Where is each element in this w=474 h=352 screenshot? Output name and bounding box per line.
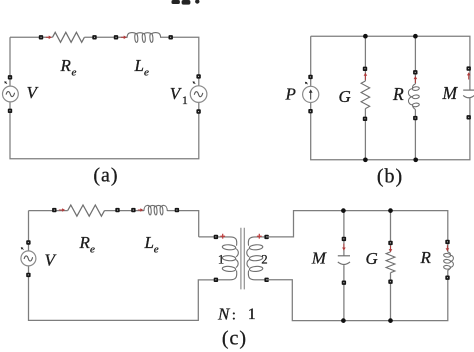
node G top (c) (388, 241, 392, 245)
inductor Le (a) (127, 33, 161, 38)
node (a) V1-bottom (196, 109, 200, 113)
node secondary top (264, 235, 268, 239)
node M top (c) (342, 237, 346, 241)
capacitor M (b) (463, 89, 474, 91)
current arrow G (c) (390, 246, 392, 250)
transformer core (241, 228, 244, 290)
node (c) V-bottom (26, 273, 30, 277)
svg-text:L: L (134, 56, 144, 75)
svg-text:e: e (144, 67, 149, 79)
node R bottom (c) (445, 276, 449, 280)
node M bottom (b) (467, 115, 471, 119)
source V (a) (2, 86, 18, 102)
node (c) top-4 (175, 208, 179, 212)
node (a) V1-top (196, 74, 200, 78)
transformer primary winding (216, 237, 238, 280)
polarity mark P (b) (306, 83, 308, 84)
node (c) top-3 (131, 208, 135, 212)
wire loop (c) right (267, 211, 448, 321)
source V (c) (21, 251, 36, 266)
junction dots (c) bottom (341, 318, 346, 323)
node (a) V-bottom (8, 109, 12, 113)
svg-text:M: M (311, 248, 327, 267)
resistor G (b) (361, 81, 370, 109)
node R top (b) (413, 70, 417, 74)
svg-text:(b): (b) (377, 166, 403, 188)
wire loop (c) left (29, 211, 216, 321)
current arrow (a) mid (121, 36, 125, 38)
node (c) V-top (26, 240, 30, 244)
node primary bottom (214, 278, 218, 282)
svg-text:2: 2 (261, 252, 267, 266)
wire branch G (b) (364, 36, 366, 160)
svg-text:e: e (90, 244, 95, 256)
svg-text:G: G (339, 87, 351, 106)
svg-text::: : (232, 308, 236, 324)
wire branch G (c) (390, 211, 392, 321)
node secondary bottom (264, 278, 268, 282)
inductor R (c) (448, 252, 454, 271)
wire branch R (b) (414, 36, 416, 160)
capacitor M (c) (338, 255, 350, 257)
current arrow M (c) (343, 244, 345, 249)
svg-text:R: R (392, 84, 404, 104)
current arrow (c) mid (138, 209, 141, 211)
svg-text:R: R (60, 56, 72, 75)
junction dots (b) bottom (363, 157, 368, 162)
svg-text:e: e (154, 244, 159, 256)
inductor R (b) (408, 84, 415, 110)
resistor G (c) (386, 252, 395, 273)
svg-text:N: N (217, 305, 231, 324)
node G top (b) (363, 67, 367, 71)
transformer secondary winding (247, 237, 267, 280)
svg-text:R: R (420, 248, 432, 267)
svg-text:R: R (79, 233, 91, 252)
inductor Le (c) (144, 205, 167, 211)
svg-text:M: M (442, 83, 459, 103)
polarity mark V (a) (5, 82, 7, 83)
current arrow R (c) (446, 245, 448, 249)
svg-text:G: G (366, 249, 378, 268)
node R bottom (b) (413, 116, 417, 120)
svg-text:(a): (a) (93, 165, 118, 187)
svg-text:1: 1 (248, 306, 256, 323)
source P (b) (303, 86, 319, 102)
node (a) top-1 (39, 35, 43, 39)
svg-text:(c): (c) (222, 328, 247, 350)
junction dots (c) top (341, 208, 346, 213)
node (a) V-top (8, 75, 12, 79)
title text remnant (cropped) (172, 0, 200, 5)
node (c) top-2 (115, 208, 119, 212)
current arrow R (b) (414, 78, 416, 83)
svg-text:P: P (285, 85, 296, 104)
junction dots (b) top (363, 34, 368, 39)
wire branch M (c) (343, 211, 345, 321)
svg-text:L: L (144, 233, 154, 252)
svg-text:1: 1 (182, 95, 188, 107)
node primary top (214, 235, 218, 239)
polarity plus secondary (257, 234, 262, 239)
current arrow (c) left (59, 209, 63, 211)
svg-text:e: e (72, 67, 77, 79)
node (a) top-4 (169, 35, 173, 39)
polarity plus primary (220, 234, 225, 239)
current arrow M (b) (468, 75, 470, 80)
resistor Re (c) (68, 205, 105, 216)
resistor Re (a) (53, 32, 85, 42)
node P top (b) (308, 75, 312, 79)
wire loop (a) (10, 37, 199, 159)
node G bottom (b) (363, 117, 367, 121)
node M bottom (c) (342, 281, 346, 285)
current arrow G (b) (364, 75, 366, 80)
svg-text:1: 1 (218, 252, 224, 266)
node (a) top-3 (114, 35, 118, 39)
polarity mark V1 (a) (194, 82, 196, 83)
polarity mark V (c) (22, 248, 24, 249)
node (c) top-1 (52, 208, 56, 212)
node M top (b) (467, 66, 471, 70)
node (a) top-2 (92, 35, 96, 39)
node G bottom (c) (388, 280, 392, 284)
source V1 (a) (190, 86, 207, 103)
node R top (c) (445, 240, 449, 244)
wire loop (b) (311, 36, 470, 160)
node P bottom (b) (308, 109, 312, 113)
current arrow (a) left (46, 36, 50, 38)
